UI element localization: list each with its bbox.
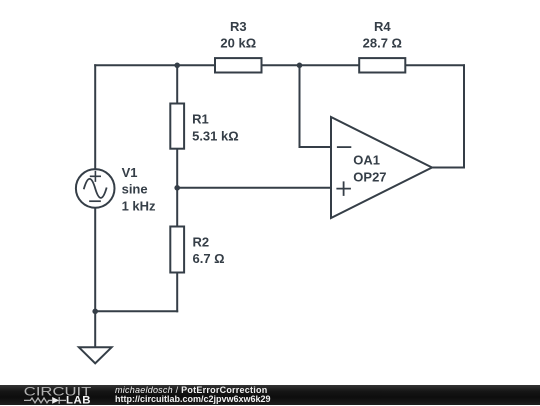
svg-text:1 kHz: 1 kHz bbox=[122, 199, 156, 214]
wire left vertical above V1 bbox=[94, 65, 96, 168]
svg-text:R1: R1 bbox=[192, 112, 209, 127]
V1 label bbox=[122, 165, 138, 180]
R3 label bbox=[230, 19, 247, 34]
R1 value label bbox=[192, 129, 239, 144]
wire inverting input vertical bbox=[299, 65, 301, 147]
wire R1 top stub bbox=[176, 65, 178, 102]
svg-text:OP27: OP27 bbox=[353, 169, 386, 184]
CircuitLab logo bbox=[0, 384, 110, 405]
svg-text:V1: V1 bbox=[122, 165, 138, 180]
resistor R3 bbox=[215, 58, 262, 72]
wire inverting input horizontal bbox=[300, 146, 332, 148]
svg-text:OA1: OA1 bbox=[353, 153, 380, 168]
OA1 value label: OP27 bbox=[353, 169, 386, 184]
ground bbox=[79, 347, 112, 363]
wire noninverting input horizontal bbox=[177, 187, 331, 189]
svg-text:R4: R4 bbox=[374, 19, 391, 34]
svg-text:6.7 Ω: 6.7 Ω bbox=[193, 251, 225, 266]
wire R3 right to node B bbox=[263, 64, 300, 66]
resistor R4 bbox=[359, 58, 405, 72]
resistor R2 bbox=[170, 227, 184, 273]
wire top-left horizontal (V1 top to node A) bbox=[95, 64, 177, 66]
wire R1 bottom stub bbox=[176, 150, 178, 188]
node C junction dot (noninverting net) bbox=[174, 185, 180, 191]
svg-text:LAB: LAB bbox=[66, 395, 91, 406]
node A junction dot bbox=[174, 63, 180, 69]
svg-text:R3: R3 bbox=[230, 19, 247, 34]
svg-text:28.7 Ω: 28.7 Ω bbox=[363, 35, 402, 50]
wire R2 top stub bbox=[176, 188, 178, 226]
wire node B to R4 left bbox=[300, 64, 359, 66]
wire right vertical (feedback down) bbox=[463, 65, 465, 167]
svg-text:5.31 kΩ: 5.31 kΩ bbox=[192, 129, 239, 144]
svg-text:R2: R2 bbox=[193, 234, 210, 249]
node D junction dot (ground net) bbox=[92, 309, 98, 315]
OA1 label bbox=[353, 153, 380, 168]
R2 label bbox=[193, 234, 210, 249]
wire node A to R3 left bbox=[177, 64, 214, 66]
R4 label bbox=[374, 19, 391, 34]
V1 value label: sine bbox=[122, 182, 148, 197]
R4 value label bbox=[363, 35, 402, 50]
svg-text:sine: sine bbox=[122, 182, 148, 197]
wire op-amp output bbox=[432, 167, 464, 169]
node B junction dot bbox=[297, 63, 303, 69]
R3 value label bbox=[220, 35, 256, 50]
wire bottom horizontal (ground net) bbox=[95, 310, 177, 312]
svg-text:20 kΩ: 20 kΩ bbox=[220, 35, 256, 50]
R1 label bbox=[192, 112, 209, 127]
attribution text bbox=[115, 385, 535, 406]
R2 value label bbox=[193, 251, 225, 266]
wire R4 right to top-right corner bbox=[406, 64, 464, 66]
wire R2 bottom stub bbox=[176, 274, 178, 312]
V1 value label: 1 kHz bbox=[122, 199, 156, 214]
wire left vertical below V1 bbox=[94, 209, 96, 346]
footer bar bbox=[0, 385, 540, 406]
resistor R1 bbox=[170, 104, 184, 149]
op-amp OA1 bbox=[331, 117, 432, 218]
voltage source V1 bbox=[76, 169, 115, 208]
